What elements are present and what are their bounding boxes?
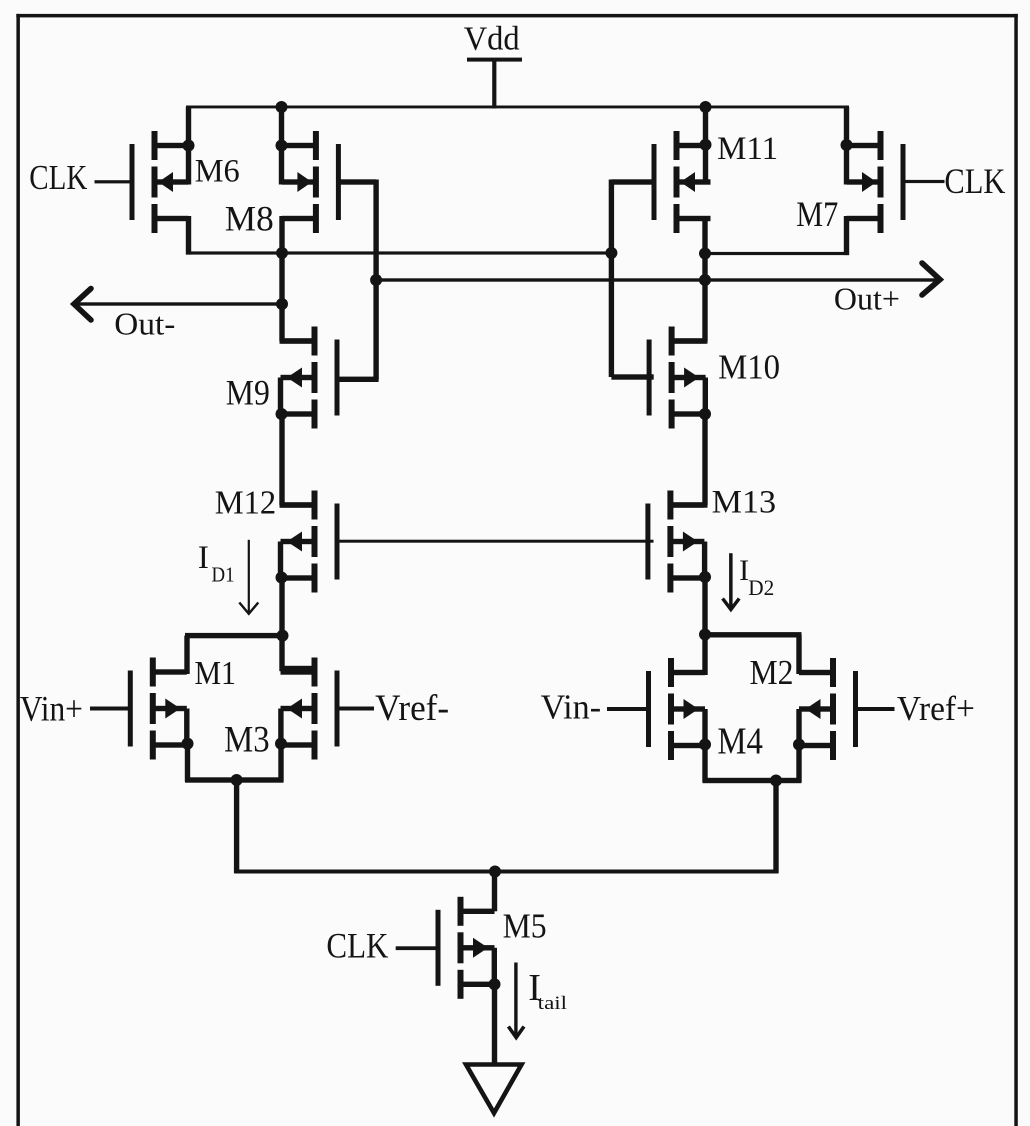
junction Out- line A — [276, 247, 288, 259]
transistor M12 (NMOS cascode left) — [281, 491, 340, 593]
wire M11 gate riser to M10 gate (Out- node) — [611, 179, 654, 184]
ground — [466, 1065, 522, 1114]
wire CLK to M6 gate — [95, 180, 132, 183]
junction M13 source/bulk — [699, 571, 711, 583]
wire node Out- horizontal (to M11/M10 gates) — [186, 251, 613, 254]
svg-text:CLK: CLK — [944, 161, 1005, 201]
wire node Out+ horizontal line B (M11/M7 sources) — [703, 252, 849, 255]
node Out- output line with arrow — [75, 302, 285, 305]
wire M1 drain riser to node D1 — [184, 636, 189, 674]
wire Vdd rail — [186, 106, 849, 109]
junction M3 source/bulk — [275, 738, 287, 750]
wire node D2 down to M2 drain — [702, 635, 707, 676]
transistor M11 (PMOS latch right) — [652, 131, 711, 233]
svg-text:Vref+: Vref+ — [897, 689, 975, 728]
transistor M2 (input Vin-) — [646, 658, 705, 760]
transistor M3 (reference Vref-) — [281, 658, 340, 760]
junction M10 source/bulk — [699, 408, 711, 420]
wire M7 gate to CLK — [904, 180, 944, 183]
junction Out- arrow line — [276, 298, 288, 310]
transistor M5 (NMOS tail clock switch) — [436, 897, 495, 999]
svg-text:M1: M1 — [195, 655, 237, 692]
wire M1 source down to tail — [185, 744, 190, 782]
transistor M10 (NMOS latch right) — [647, 327, 706, 429]
junction rail M11 — [700, 101, 712, 113]
junction rail M8 — [276, 101, 288, 113]
junction M8 drain — [276, 140, 288, 152]
wire M12 gate to M13 gate — [336, 540, 654, 543]
svg-text:Vdd: Vdd — [464, 21, 520, 58]
wire M2 source down to tail — [702, 745, 707, 783]
wire M4 source down to tail — [796, 745, 801, 783]
current arrow ID2 — [729, 553, 733, 607]
wire common tail line — [234, 870, 778, 874]
wire M4 bulk to source — [796, 709, 801, 747]
junction M11 drain — [700, 139, 712, 151]
svg-text:D1: D1 — [212, 562, 235, 586]
svg-text:Out+: Out+ — [834, 281, 900, 316]
wire node D1 down to M3 drain — [279, 636, 284, 671]
wire M2 bulk to source — [702, 709, 707, 747]
svg-text:M8: M8 — [225, 199, 274, 239]
wire M3 bulk to source — [278, 709, 283, 747]
wire M9 source down to M12 drain — [279, 414, 284, 505]
junction M4 source/bulk — [793, 739, 805, 751]
svg-text:M5: M5 — [503, 908, 547, 946]
svg-text:M4: M4 — [717, 720, 763, 762]
wire M7 drain/bulk riser to rail — [844, 107, 849, 185]
wire M8 drain/bulk riser to rail — [279, 107, 284, 185]
current arrow ID1 — [248, 540, 250, 613]
junction M9 source/bulk — [276, 408, 288, 420]
wire node D2 line (M2/M4 drains) — [703, 632, 802, 637]
wire Vin+ to M1 gate — [90, 707, 130, 711]
border frame top — [16, 14, 1018, 18]
svg-text:M7: M7 — [796, 194, 838, 234]
transistor M8 (PMOS latch left) — [282, 131, 341, 233]
node Out+ output line with arrow — [376, 278, 936, 281]
junction M6 drain — [183, 140, 195, 152]
junction M12 source/bulk — [276, 572, 288, 584]
wire left tail riser down — [234, 780, 239, 873]
transistor M9 (NMOS latch left) — [281, 327, 340, 429]
current arrow Itail — [514, 963, 517, 1036]
svg-text:Vin-: Vin- — [541, 689, 602, 727]
junction Out- M11 gate — [605, 247, 617, 259]
wire left pair tail line — [185, 777, 284, 782]
wire M9 bulk to source — [278, 378, 283, 417]
svg-text:Out-: Out- — [114, 306, 175, 341]
junction node D2 — [699, 629, 711, 641]
junction M7 drain — [841, 139, 853, 151]
wire M3 gate to Vref- — [338, 707, 374, 711]
junction M1 source/bulk — [182, 738, 194, 750]
wire right pair tail line — [703, 778, 802, 783]
transistor M4 (reference Vref+) — [799, 658, 858, 760]
svg-text:CLK: CLK — [29, 159, 87, 197]
wire CLK to M5 gate — [396, 946, 439, 950]
wire M5 bulk to source — [492, 948, 497, 987]
wire M12 bulk to source — [278, 542, 283, 581]
wire M12 source down to node D1 — [279, 578, 284, 639]
transistor M6 (PMOS reset switch) — [130, 131, 189, 233]
svg-text:M12: M12 — [215, 485, 277, 522]
border frame right — [1014, 14, 1018, 1126]
svg-text:M11: M11 — [717, 131, 778, 167]
svg-text:M10: M10 — [718, 347, 780, 386]
arrowhead Out- — [74, 289, 91, 321]
wire M11 drain/bulk riser to rail — [703, 107, 708, 185]
junction right tail — [770, 775, 782, 787]
junction M2 source/bulk — [699, 739, 711, 751]
wire M4 gate to Vref+ — [855, 707, 895, 711]
svg-text:tail: tail — [538, 993, 567, 1014]
wire M8 source down to M9 drain — [279, 216, 284, 341]
wire M5 drain riser — [492, 872, 497, 912]
svg-text:Vref-: Vref- — [375, 687, 449, 728]
junction left tail — [231, 774, 243, 786]
border frame left — [16, 14, 20, 1126]
svg-text:M3: M3 — [224, 719, 270, 760]
transistor M1 (input Vin+) — [128, 658, 187, 760]
wire M13 source down to node D2 — [702, 577, 707, 637]
wire Vin- to M2 gate — [607, 707, 650, 711]
wire M6 drain/bulk riser to rail — [186, 107, 191, 185]
wire M4 drain riser to node D2 — [796, 635, 801, 674]
wire M8 gate riser to M9 gate (Out+ node) — [338, 179, 376, 184]
wire M5 source to ground — [492, 984, 497, 1066]
svg-text:Vin+: Vin+ — [20, 688, 83, 728]
junction M5 source/bulk — [489, 978, 501, 990]
svg-text:M2: M2 — [750, 654, 794, 692]
svg-text:M6: M6 — [195, 153, 240, 189]
Vdd supply symbol — [467, 58, 522, 109]
junction tail M5 — [489, 866, 501, 878]
wire M11 source down to M10 drain — [702, 216, 707, 341]
svg-text:CLK: CLK — [326, 926, 388, 966]
wire M10 bulk to source — [703, 378, 708, 417]
transistor M7 (PMOS reset switch) — [847, 131, 906, 233]
wire M1 bulk to source — [184, 709, 189, 747]
junction Out+ M8 gate — [370, 274, 382, 286]
arrowhead Out+ — [922, 263, 940, 295]
svg-text:D2: D2 — [748, 575, 774, 600]
junction Out+ arrow line — [699, 274, 711, 286]
wire M13 bulk to source — [702, 542, 707, 581]
junction Out+ line B — [699, 248, 711, 260]
wire M7 source riser — [844, 216, 849, 255]
junction node D1 — [277, 630, 289, 642]
transistor M13 (NMOS cascode right) — [645, 491, 704, 593]
svg-text:M13: M13 — [712, 485, 777, 521]
wire right tail riser down — [773, 781, 778, 874]
wire node D1 line (M1/M3 drains) — [185, 633, 285, 638]
wire M10 source down to M13 drain — [702, 414, 707, 505]
wire M3 source down to tail — [278, 744, 283, 782]
svg-text:M9: M9 — [226, 373, 270, 413]
svg-text:I: I — [198, 540, 209, 576]
wire M6 source riser — [186, 216, 191, 255]
